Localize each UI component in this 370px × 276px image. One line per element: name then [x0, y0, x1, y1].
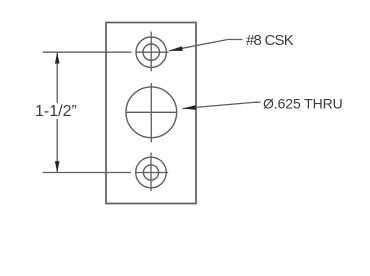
leader arrowhead to hole H1 — [169, 46, 183, 51]
hole H2 vertical centerline — [150, 83, 152, 142]
svg-text:1-1/2”: 1-1/2” — [35, 103, 77, 120]
hole H1 countersunk outer circle — [136, 37, 166, 67]
svg-text:#8 CSK: #8 CSK — [246, 32, 294, 49]
hole H3 countersunk outer circle — [136, 157, 167, 188]
dimension arrowhead up — [55, 52, 60, 63]
extension line bottom — [43, 172, 131, 174]
hole H2 horizontal centerline — [126, 111, 177, 113]
dimension arrowhead down — [55, 161, 60, 172]
hole H3 horizontal centerline — [136, 172, 169, 174]
plate outline — [106, 23, 196, 204]
dimension line upper segment — [56, 53, 58, 103]
leader arrowhead to hole H2 — [183, 105, 197, 110]
hole H1 inner circle — [143, 44, 159, 60]
hole H2 thru circle — [126, 87, 177, 138]
hole H3 vertical centerline — [150, 153, 152, 192]
hole H1 vertical centerline — [150, 32, 152, 72]
extension line top — [43, 51, 132, 53]
leader line to Ø.625 THRU — [183, 102, 261, 108]
hole H1 horizontal centerline — [136, 51, 169, 53]
leader line to #8 CSK — [169, 40, 243, 51]
hole H3 inner circle — [143, 165, 158, 180]
svg-text:Ø.625 THRU: Ø.625 THRU — [263, 95, 343, 111]
dimension line lower segment — [56, 119, 58, 172]
